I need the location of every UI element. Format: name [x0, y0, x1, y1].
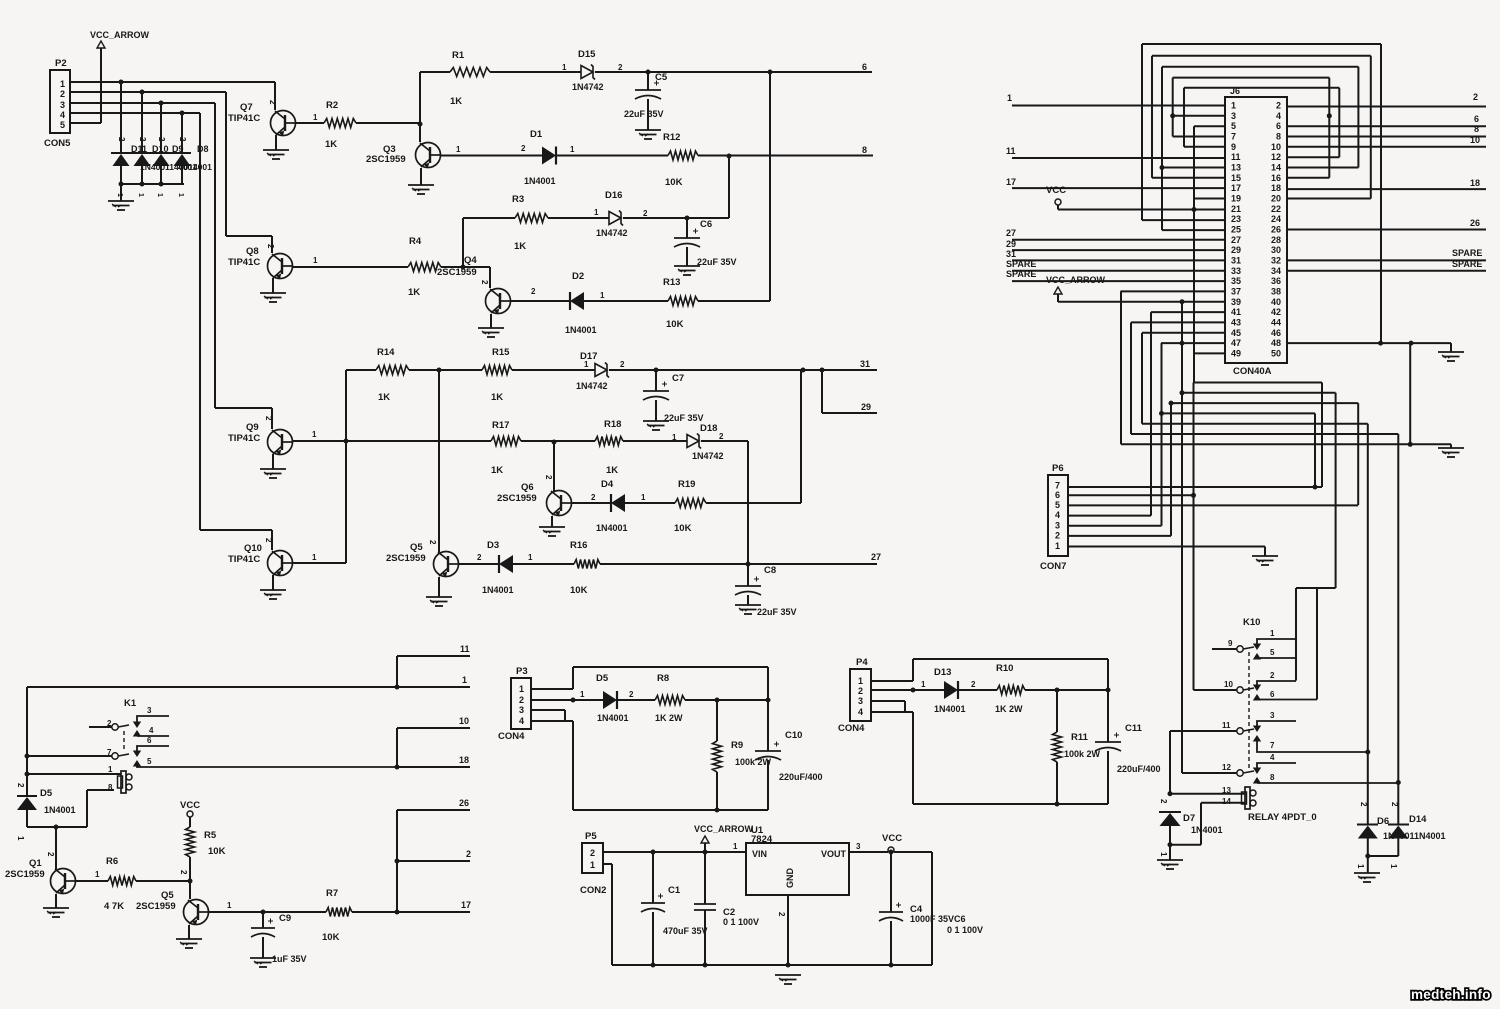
svg-text:1: 1: [1055, 541, 1060, 551]
svg-text:1N4001: 1N4001: [565, 325, 597, 335]
svg-text:2: 2: [1159, 799, 1168, 804]
svg-text:D7: D7: [1183, 813, 1195, 824]
svg-text:R15: R15: [492, 347, 510, 358]
svg-text:10K: 10K: [208, 846, 226, 857]
svg-text:1N4001: 1N4001: [597, 713, 629, 723]
svg-text:4: 4: [1055, 510, 1060, 520]
svg-text:TIP41C: TIP41C: [228, 433, 260, 444]
svg-text:6: 6: [1276, 121, 1281, 131]
svg-text:13: 13: [1231, 162, 1241, 172]
svg-text:42: 42: [1271, 307, 1281, 317]
svg-text:2: 2: [480, 280, 489, 285]
svg-text:R19: R19: [678, 479, 695, 490]
svg-text:Q7: Q7: [240, 102, 253, 113]
svg-text:1: 1: [16, 836, 25, 841]
svg-text:41: 41: [1231, 307, 1241, 317]
svg-text:1N4742: 1N4742: [576, 381, 608, 391]
svg-text:14: 14: [1222, 797, 1231, 806]
svg-text:R9: R9: [731, 740, 743, 751]
svg-text:1: 1: [156, 193, 163, 197]
svg-text:3: 3: [60, 100, 65, 110]
svg-text:2: 2: [544, 475, 553, 480]
svg-text:32: 32: [1271, 255, 1281, 265]
svg-text:2: 2: [117, 137, 126, 142]
svg-text:2: 2: [531, 287, 536, 296]
svg-text:2SC1959: 2SC1959: [5, 869, 45, 880]
svg-text:Q10: Q10: [244, 543, 262, 554]
svg-text:C5: C5: [655, 72, 668, 83]
svg-text:8: 8: [108, 783, 113, 792]
svg-text:3: 3: [1231, 111, 1236, 121]
svg-text:18: 18: [1470, 178, 1480, 188]
svg-text:CON4: CON4: [498, 731, 525, 742]
svg-text:5: 5: [147, 757, 152, 766]
svg-text:26: 26: [1470, 218, 1480, 228]
svg-text:1000F 35VC6: 1000F 35VC6: [910, 914, 966, 924]
svg-text:VIN: VIN: [752, 849, 767, 859]
svg-text:22uF 35V: 22uF 35V: [757, 607, 797, 617]
svg-text:12: 12: [1222, 763, 1231, 772]
svg-text:Q5: Q5: [161, 890, 174, 901]
svg-text:10K: 10K: [570, 585, 588, 596]
svg-text:27: 27: [871, 552, 881, 562]
svg-text:R12: R12: [663, 132, 680, 143]
svg-text:SPARE: SPARE: [1006, 259, 1036, 269]
svg-text:2: 2: [971, 680, 976, 689]
svg-text:45: 45: [1231, 328, 1241, 338]
svg-text:D3: D3: [487, 540, 499, 551]
svg-text:15: 15: [1231, 173, 1241, 183]
svg-text:2: 2: [1276, 101, 1281, 111]
svg-text:2: 2: [858, 686, 863, 696]
svg-text:R7: R7: [326, 888, 338, 899]
svg-text:33: 33: [1231, 266, 1241, 276]
svg-text:Q6: Q6: [521, 482, 534, 493]
svg-text:R13: R13: [663, 277, 680, 288]
svg-text:1: 1: [1356, 864, 1365, 869]
svg-text:R14: R14: [377, 347, 395, 358]
svg-text:29: 29: [1231, 245, 1241, 255]
svg-text:1: 1: [562, 63, 567, 72]
svg-text:11: 11: [1222, 721, 1231, 730]
svg-text:1: 1: [462, 675, 467, 685]
svg-text:1: 1: [858, 676, 863, 686]
svg-text:D15: D15: [578, 49, 596, 60]
svg-text:220uF/400: 220uF/400: [779, 772, 823, 782]
svg-text:R16: R16: [570, 540, 587, 551]
svg-text:21: 21: [1231, 204, 1241, 214]
svg-text:1: 1: [456, 145, 461, 154]
svg-text:D6: D6: [1377, 816, 1389, 827]
svg-text:D11: D11: [131, 144, 147, 154]
svg-text:4: 4: [858, 707, 863, 717]
svg-text:1: 1: [590, 860, 595, 870]
svg-text:16: 16: [1271, 173, 1281, 183]
svg-text:3: 3: [856, 842, 861, 851]
svg-text:2: 2: [477, 553, 482, 562]
svg-text:2: 2: [157, 137, 166, 142]
svg-text:6: 6: [147, 736, 152, 745]
svg-text:1K: 1K: [491, 465, 503, 476]
svg-text:1: 1: [177, 193, 184, 197]
svg-text:VCC_ARROW: VCC_ARROW: [90, 30, 150, 40]
svg-text:1: 1: [580, 690, 585, 699]
svg-text:1K: 1K: [325, 139, 337, 150]
svg-text:1: 1: [570, 145, 575, 154]
svg-text:10K: 10K: [666, 319, 684, 330]
svg-text:D2: D2: [572, 271, 584, 282]
svg-text:VCC_ARROW: VCC_ARROW: [1046, 275, 1106, 285]
svg-text:2: 2: [264, 416, 273, 421]
svg-text:1K 2W: 1K 2W: [995, 704, 1023, 714]
svg-text:1N40011N4001: 1N40011N4001: [1383, 831, 1446, 841]
svg-text:2SC1959: 2SC1959: [497, 493, 537, 504]
svg-text:17: 17: [1006, 177, 1016, 187]
svg-text:22: 22: [1271, 204, 1281, 214]
svg-text:1K: 1K: [450, 96, 462, 107]
svg-text:1N4742: 1N4742: [596, 228, 628, 238]
svg-text:6: 6: [1474, 114, 1479, 124]
svg-text:TIP41C: TIP41C: [228, 554, 260, 565]
svg-text:R6: R6: [106, 856, 118, 867]
svg-text:P6: P6: [1052, 463, 1064, 474]
svg-text:1K 2W: 1K 2W: [655, 713, 683, 723]
svg-text:2: 2: [719, 432, 724, 441]
svg-text:22uF 35V: 22uF 35V: [664, 413, 704, 423]
svg-text:1: 1: [1389, 864, 1398, 869]
svg-text:29: 29: [861, 402, 871, 412]
svg-text:D9: D9: [172, 144, 184, 154]
svg-text:D14: D14: [1409, 814, 1427, 825]
svg-text:7824: 7824: [751, 834, 773, 845]
svg-text:2: 2: [777, 912, 786, 917]
svg-text:2: 2: [16, 783, 25, 788]
svg-text:1N4001: 1N4001: [1191, 825, 1223, 835]
svg-text:0 1 100V: 0 1 100V: [947, 925, 983, 935]
svg-text:SPARE: SPARE: [1452, 259, 1482, 269]
svg-text:1K: 1K: [408, 287, 420, 298]
svg-text:VCC: VCC: [1046, 185, 1066, 196]
svg-text:2: 2: [591, 493, 596, 502]
svg-text:1: 1: [227, 901, 232, 910]
svg-text:P2: P2: [55, 58, 67, 69]
svg-text:D5: D5: [40, 788, 53, 799]
svg-text:VCC: VCC: [180, 800, 200, 811]
svg-text:C10: C10: [785, 730, 802, 741]
svg-text:10: 10: [1224, 680, 1233, 689]
svg-text:3: 3: [147, 706, 152, 715]
svg-text:5: 5: [1231, 121, 1236, 131]
svg-text:3: 3: [858, 696, 863, 706]
svg-text:470uF 35V: 470uF 35V: [663, 926, 708, 936]
svg-text:1: 1: [528, 553, 533, 562]
svg-text:2: 2: [138, 137, 147, 142]
svg-text:44: 44: [1271, 317, 1281, 327]
svg-text:R18: R18: [604, 419, 621, 430]
svg-text:K1: K1: [124, 698, 137, 709]
svg-text:2: 2: [264, 538, 273, 543]
svg-text:2: 2: [521, 144, 526, 153]
svg-text:Q8: Q8: [246, 246, 259, 257]
svg-text:R17: R17: [492, 420, 509, 431]
svg-text:VCC_ARROW: VCC_ARROW: [694, 824, 754, 834]
svg-text:2: 2: [428, 540, 437, 545]
svg-text:50: 50: [1271, 348, 1281, 358]
svg-text:3: 3: [519, 705, 524, 715]
svg-text:46: 46: [1271, 328, 1281, 338]
svg-text:C8: C8: [764, 565, 776, 576]
svg-text:8: 8: [1474, 124, 1479, 134]
svg-text:26: 26: [459, 798, 469, 808]
svg-text:1: 1: [584, 360, 589, 369]
svg-text:43: 43: [1231, 317, 1241, 327]
svg-text:14: 14: [1271, 162, 1281, 172]
svg-text:2: 2: [1390, 802, 1399, 807]
svg-text:48: 48: [1271, 338, 1281, 348]
svg-text:D13: D13: [934, 667, 951, 678]
svg-text:23: 23: [1231, 214, 1241, 224]
svg-text:6: 6: [1270, 690, 1275, 699]
svg-text:1: 1: [312, 430, 317, 439]
svg-text:24: 24: [1271, 214, 1281, 224]
svg-text:P5: P5: [585, 831, 597, 842]
svg-text:1: 1: [1007, 93, 1012, 103]
svg-text:CON40A: CON40A: [1233, 366, 1272, 377]
svg-text:2: 2: [629, 690, 634, 699]
svg-text:3: 3: [1270, 711, 1275, 720]
svg-text:34: 34: [1271, 266, 1281, 276]
svg-text:1N4001: 1N4001: [596, 523, 628, 533]
svg-text:1: 1: [313, 113, 318, 122]
svg-text:1: 1: [1231, 101, 1236, 111]
svg-text:VOUT: VOUT: [821, 849, 847, 859]
svg-text:P4: P4: [856, 657, 868, 668]
svg-text:29: 29: [1006, 239, 1016, 249]
svg-text:10: 10: [459, 716, 469, 726]
svg-text:4001: 4001: [178, 162, 197, 172]
svg-text:CON4: CON4: [838, 723, 865, 734]
svg-text:10: 10: [1470, 135, 1480, 145]
svg-text:C11: C11: [1125, 723, 1143, 734]
svg-text:2: 2: [60, 89, 65, 99]
svg-text:1: 1: [733, 842, 738, 851]
svg-text:5: 5: [1055, 500, 1060, 510]
svg-text:1: 1: [95, 870, 100, 879]
svg-text:2SC1959: 2SC1959: [366, 154, 406, 165]
svg-text:1uF 35V: 1uF 35V: [272, 954, 307, 964]
svg-text:R5: R5: [204, 830, 217, 841]
svg-text:40: 40: [1271, 297, 1281, 307]
svg-text:2SC1959: 2SC1959: [136, 901, 176, 912]
svg-text:R3: R3: [512, 194, 524, 205]
svg-text:1N4742: 1N4742: [692, 451, 724, 461]
svg-text:2SC1959: 2SC1959: [386, 553, 426, 564]
svg-text:R10: R10: [996, 663, 1013, 674]
svg-text:D8: D8: [197, 144, 209, 154]
svg-text:37: 37: [1231, 286, 1241, 296]
svg-text:R2: R2: [326, 100, 338, 111]
svg-text:4: 4: [149, 726, 154, 735]
svg-text:4 7K: 4 7K: [104, 901, 124, 912]
svg-text:C9: C9: [279, 913, 291, 924]
svg-text:medteh.info: medteh.info: [1411, 987, 1491, 1002]
svg-text:1K: 1K: [378, 392, 390, 403]
svg-text:12: 12: [1271, 152, 1281, 162]
svg-text:7: 7: [107, 748, 112, 757]
svg-text:1N4001: 1N4001: [44, 805, 76, 815]
svg-text:1: 1: [600, 291, 605, 300]
svg-text:1N4001140014001: 1N4001140014001: [140, 162, 212, 172]
svg-text:35: 35: [1231, 276, 1241, 286]
svg-text:31: 31: [1006, 249, 1016, 259]
svg-text:4: 4: [1270, 753, 1275, 762]
svg-text:100k 2W: 100k 2W: [735, 757, 772, 767]
svg-text:22uF 35V: 22uF 35V: [697, 257, 737, 267]
svg-text:1: 1: [921, 680, 926, 689]
svg-text:R1: R1: [452, 50, 465, 61]
svg-text:2: 2: [1055, 530, 1060, 540]
svg-text:2: 2: [466, 849, 471, 859]
svg-text:CON7: CON7: [1040, 561, 1066, 572]
svg-text:18: 18: [459, 755, 469, 765]
svg-text:TIP41C: TIP41C: [228, 113, 260, 124]
svg-text:SPARE: SPARE: [1452, 248, 1482, 258]
svg-text:5: 5: [1270, 648, 1275, 657]
svg-text:4: 4: [519, 716, 524, 726]
svg-text:1: 1: [641, 493, 646, 502]
svg-text:C6: C6: [700, 219, 712, 230]
svg-text:2: 2: [178, 137, 187, 142]
svg-text:GND: GND: [785, 868, 795, 889]
svg-text:20: 20: [1271, 193, 1281, 203]
svg-text:1: 1: [313, 256, 318, 265]
svg-text:1N4742: 1N4742: [572, 82, 604, 92]
svg-text:9: 9: [1228, 639, 1233, 648]
svg-text:30: 30: [1271, 245, 1281, 255]
svg-text:RELAY 4PDT_0: RELAY 4PDT_0: [1248, 812, 1317, 823]
svg-text:10K: 10K: [322, 932, 340, 943]
svg-text:Q1: Q1: [29, 858, 42, 869]
svg-text:220uF/400: 220uF/400: [1117, 764, 1161, 774]
svg-text:1: 1: [137, 193, 144, 197]
svg-text:C7: C7: [672, 373, 684, 384]
svg-text:2: 2: [179, 870, 188, 875]
svg-text:P3: P3: [516, 666, 528, 677]
svg-text:5: 5: [60, 120, 65, 130]
svg-text:1N4001: 1N4001: [524, 176, 556, 186]
svg-text:R11: R11: [1071, 732, 1089, 743]
svg-text:9: 9: [1231, 142, 1236, 152]
svg-text:28: 28: [1271, 235, 1281, 245]
svg-text:49: 49: [1231, 348, 1241, 358]
svg-text:1N4001: 1N4001: [934, 704, 966, 714]
svg-text:4: 4: [1276, 111, 1281, 121]
svg-text:18: 18: [1271, 183, 1281, 193]
svg-text:11: 11: [1006, 146, 1016, 156]
svg-text:CON5: CON5: [44, 138, 71, 149]
svg-text:2: 2: [46, 852, 55, 857]
svg-text:2: 2: [618, 63, 623, 72]
svg-text:1: 1: [594, 208, 599, 217]
svg-text:2: 2: [519, 695, 524, 705]
svg-text:D18: D18: [700, 423, 717, 434]
svg-text:2: 2: [266, 244, 275, 249]
svg-text:8: 8: [1276, 131, 1281, 141]
svg-text:2: 2: [1473, 92, 1478, 102]
svg-text:1: 1: [672, 433, 677, 442]
svg-text:C1: C1: [668, 885, 681, 896]
svg-text:10: 10: [1271, 142, 1281, 152]
svg-text:2: 2: [268, 100, 277, 105]
svg-text:Q4: Q4: [464, 255, 477, 266]
svg-text:D5: D5: [596, 673, 609, 684]
svg-text:1: 1: [1270, 629, 1275, 638]
svg-text:10K: 10K: [674, 523, 692, 534]
svg-text:1K: 1K: [491, 392, 503, 403]
svg-text:SPARE: SPARE: [1006, 269, 1036, 279]
svg-text:7: 7: [1270, 741, 1275, 750]
svg-text:7: 7: [1231, 131, 1236, 141]
svg-text:1N4001: 1N4001: [482, 585, 514, 595]
svg-text:1: 1: [519, 684, 524, 694]
svg-text:1K: 1K: [514, 241, 526, 252]
svg-text:10K: 10K: [665, 177, 683, 188]
svg-text:1: 1: [60, 79, 65, 89]
svg-text:38: 38: [1271, 286, 1281, 296]
svg-text:22uF 35V: 22uF 35V: [624, 109, 664, 119]
svg-text:R8: R8: [657, 673, 669, 684]
svg-text:2: 2: [1359, 802, 1368, 807]
svg-text:8: 8: [862, 145, 867, 155]
svg-text:1K: 1K: [606, 465, 618, 476]
svg-text:2: 2: [620, 360, 625, 369]
svg-text:Q9: Q9: [246, 422, 259, 433]
svg-text:1: 1: [1159, 852, 1168, 857]
svg-text:D4: D4: [601, 479, 614, 490]
svg-text:K10: K10: [1243, 617, 1260, 628]
svg-text:CON2: CON2: [580, 885, 606, 896]
svg-text:D1: D1: [530, 129, 543, 140]
svg-text:2: 2: [643, 209, 648, 218]
svg-text:25: 25: [1231, 224, 1241, 234]
svg-text:2: 2: [1270, 671, 1275, 680]
svg-text:4: 4: [60, 110, 65, 120]
svg-text:R4: R4: [409, 236, 422, 247]
svg-text:VCC: VCC: [882, 833, 902, 844]
svg-text:27: 27: [1231, 235, 1241, 245]
svg-text:26: 26: [1271, 224, 1281, 234]
svg-text:8: 8: [1270, 773, 1275, 782]
svg-text:D16: D16: [605, 190, 622, 201]
svg-text:39: 39: [1231, 297, 1241, 307]
svg-text:17: 17: [1231, 183, 1241, 193]
svg-text:6: 6: [862, 62, 867, 72]
svg-text:11: 11: [460, 644, 470, 654]
svg-text:31: 31: [1231, 255, 1241, 265]
svg-text:2: 2: [590, 848, 595, 858]
svg-text:36: 36: [1271, 276, 1281, 286]
svg-text:1: 1: [312, 553, 317, 562]
svg-text:27: 27: [1006, 228, 1016, 238]
svg-text:0 1 100V: 0 1 100V: [723, 917, 759, 927]
svg-text:6: 6: [1055, 490, 1060, 500]
svg-text:17: 17: [461, 900, 471, 910]
svg-text:D10: D10: [152, 144, 169, 154]
svg-text:2SC1959: 2SC1959: [437, 267, 477, 278]
svg-text:47: 47: [1231, 338, 1241, 348]
svg-text:Q5: Q5: [410, 542, 423, 553]
svg-text:TIP41C: TIP41C: [228, 257, 260, 268]
